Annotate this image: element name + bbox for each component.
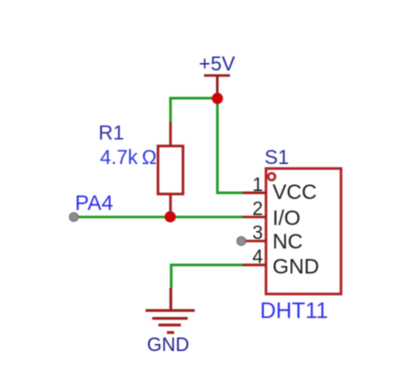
pin 3 stub bbox=[246, 240, 267, 243]
svg-text:DHT11: DHT11 bbox=[260, 298, 328, 323]
svg-text:4: 4 bbox=[252, 247, 263, 268]
svg-text:+5V: +5V bbox=[199, 54, 236, 76]
wire: pin 4 to ground bbox=[171, 265, 243, 289]
pin 1 indicator circle bbox=[268, 173, 275, 180]
svg-text:GND: GND bbox=[147, 335, 189, 356]
power symbol +5V bbox=[204, 76, 230, 97]
wire PA4 net bbox=[74, 216, 243, 219]
svg-text:4.7k Ω: 4.7k Ω bbox=[100, 147, 157, 169]
wire: resistor top to +5V junction bbox=[171, 98, 218, 122]
ground symbol bbox=[146, 288, 195, 333]
svg-text:1: 1 bbox=[252, 175, 263, 196]
junction dot PA4/R1 bbox=[165, 211, 176, 222]
svg-text:NC: NC bbox=[273, 231, 303, 254]
pin 4 stub bbox=[243, 264, 267, 267]
IC U1 box (DHT11, S1) bbox=[266, 169, 341, 295]
svg-text:GND: GND bbox=[273, 256, 320, 279]
junction dot +5V bbox=[212, 93, 223, 104]
svg-text:S1: S1 bbox=[265, 147, 289, 169]
wire: +5V junction down to pin 1 (VCC) bbox=[217, 98, 242, 193]
pin 2 stub bbox=[243, 216, 267, 219]
svg-text:PA4: PA4 bbox=[75, 192, 113, 215]
svg-text:R1: R1 bbox=[99, 123, 125, 145]
terminal dot PA4 bbox=[69, 213, 78, 222]
svg-text:VCC: VCC bbox=[273, 181, 317, 204]
unconnected terminal dot pin 3 bbox=[237, 237, 246, 246]
svg-text:3: 3 bbox=[252, 223, 263, 244]
resistor R1 bbox=[158, 122, 183, 216]
svg-text:2: 2 bbox=[252, 199, 263, 220]
pin 1 stub bbox=[243, 192, 267, 195]
svg-text:I/O: I/O bbox=[273, 207, 301, 230]
